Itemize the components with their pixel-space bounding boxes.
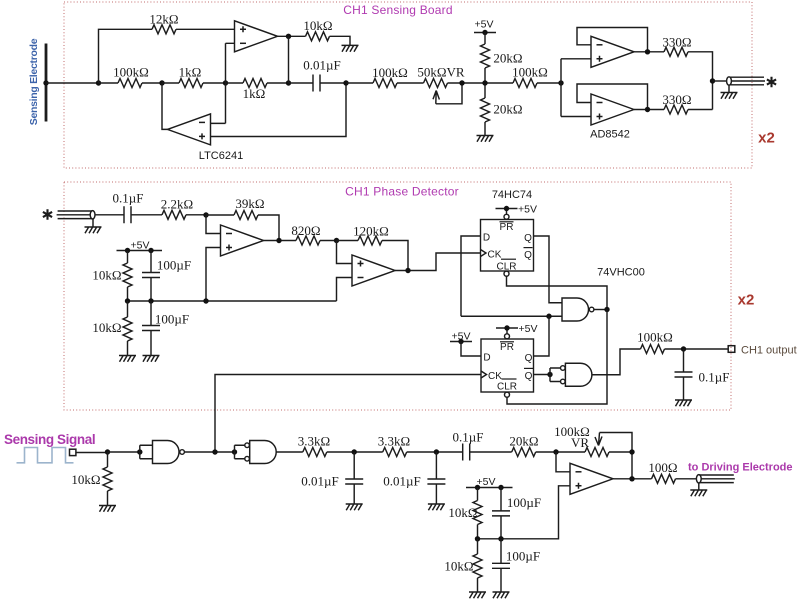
wire U6 D input xyxy=(461,236,481,316)
node Q junction xyxy=(352,449,357,454)
svg-text:to Driving Electrode: to Driving Electrode xyxy=(688,462,793,474)
svg-text:D: D xyxy=(483,233,490,244)
wire cap to 2.2k xyxy=(131,214,162,216)
node F divider junction xyxy=(482,80,487,85)
U8 D +5V xyxy=(450,339,472,344)
node on electrode xyxy=(43,80,48,85)
VR 50k wiper wire xyxy=(436,83,462,104)
wire 100k to terminal xyxy=(665,348,729,350)
svg-text:PR: PR xyxy=(500,342,514,353)
svg-text:2.2kΩ: 2.2kΩ xyxy=(161,197,193,212)
nand U10 xyxy=(250,441,277,464)
VR 100k wiper arrow xyxy=(595,433,602,446)
wire coax shield to ground xyxy=(698,483,700,490)
wire +5V to D xyxy=(461,342,481,357)
svg-text:10kΩ: 10kΩ xyxy=(71,472,100,487)
resistor R 10k to ground xyxy=(306,32,330,41)
wire gate1 input bracket xyxy=(140,445,153,459)
ground at output cap xyxy=(675,400,692,406)
wire U5 output to CK xyxy=(395,253,481,271)
node gate2 bracket xyxy=(232,449,237,454)
capacitor C 100uF bias lower xyxy=(150,301,152,326)
svg-text:CH1 output: CH1 output xyxy=(741,344,797,356)
board outline: CH1 Phase Detector dashed border xyxy=(64,182,731,410)
capacitor C 100uF bias upper xyxy=(150,251,152,273)
svg-text:CK: CK xyxy=(488,371,502,382)
wire 12k to op-amp U1 + input xyxy=(176,28,235,30)
wire node S to op-amp minus xyxy=(556,452,570,472)
node E junction xyxy=(343,80,348,85)
node U7A in2 junction xyxy=(546,314,551,319)
ground at coax xyxy=(721,93,738,99)
overline U8 Qbar xyxy=(524,367,533,369)
op-amp U4 phase first xyxy=(221,225,264,256)
coax connector driving output xyxy=(696,475,734,483)
node K junction xyxy=(276,238,281,243)
potentiometer VR 100k xyxy=(585,448,609,457)
node bias 100uF xyxy=(498,485,503,490)
svg-text:+5V: +5V xyxy=(477,476,496,488)
+5V supply driver bias xyxy=(466,487,513,489)
wire U8 Q bar output xyxy=(534,374,551,376)
wire U6 Q output xyxy=(534,236,563,303)
wire node C vertical to U1 minus and LTC6241 minus xyxy=(211,43,235,123)
ground at input coax xyxy=(85,227,102,233)
svg-text:Q: Q xyxy=(524,233,532,244)
svg-text:12kΩ: 12kΩ xyxy=(149,12,178,27)
wire node G to buffer + inputs xyxy=(561,59,591,117)
node rail 10k xyxy=(125,298,130,303)
wire U3A output xyxy=(634,51,664,53)
svg-text:20kΩ: 20kΩ xyxy=(509,434,538,449)
node rail 10k lower xyxy=(475,536,480,541)
svg-text:Q: Q xyxy=(525,371,533,382)
bias rail wire xyxy=(128,300,337,302)
U8 clock triangle xyxy=(481,371,487,378)
wire 100 to coax xyxy=(676,478,697,480)
nand U10 input bubbles xyxy=(245,443,250,448)
svg-text:74HC74: 74HC74 xyxy=(492,189,532,201)
nand U7A 74VHC00 xyxy=(562,298,589,321)
node H output junction xyxy=(710,78,715,83)
svg-text:0.01µF: 0.01µF xyxy=(383,474,420,489)
U8 CLR bubble xyxy=(505,392,510,397)
capacitor C 100uF driver lower xyxy=(500,539,502,564)
resistor R 1k first xyxy=(162,82,179,84)
wire U7A output xyxy=(594,309,607,311)
wire coax shield to ground xyxy=(92,219,94,227)
potentiometer VR 50k xyxy=(424,79,448,88)
wire VR to node T xyxy=(609,451,632,453)
wire LTC6241 output up to node B xyxy=(162,83,168,129)
resistor R 100k output xyxy=(641,345,665,354)
ground at 0.01uF second xyxy=(428,504,445,510)
svg-text:D: D xyxy=(483,353,490,364)
svg-text:CLR: CLR xyxy=(497,381,517,392)
resistor R 3.3k second xyxy=(383,448,407,457)
svg-text:120kΩ: 120kΩ xyxy=(353,224,389,239)
wire U3B output xyxy=(634,109,664,111)
capacitor C 0.01uF xyxy=(289,82,314,84)
resistor R 39k feedback xyxy=(206,214,234,216)
wire 2.2k to node J xyxy=(186,214,206,216)
resistor R 120k feedback xyxy=(337,240,359,242)
ground at 10k xyxy=(119,356,136,362)
U6 clock triangle xyxy=(481,250,487,257)
resistor R 10k pulldown xyxy=(107,452,109,467)
resistor R 12k xyxy=(152,25,176,34)
wire U3B feedback xyxy=(577,84,648,110)
wire U7A output down to CLR lower xyxy=(507,310,607,405)
wire node H to coax xyxy=(713,80,728,82)
svg-text:AD8542: AD8542 xyxy=(590,128,630,140)
svg-text:VR: VR xyxy=(571,435,589,450)
svg-text:330Ω: 330Ω xyxy=(662,35,691,50)
capacitor C 100uF driver upper xyxy=(500,488,502,511)
op-amp U11 driver xyxy=(570,463,613,494)
wire LTC6241 plus input from node E xyxy=(211,83,347,137)
node G buffer input junction xyxy=(558,80,563,85)
resistor R 100k input xyxy=(99,82,119,84)
wire U8 CK from divider chain xyxy=(215,375,481,453)
resistor R 10k bias upper xyxy=(127,251,129,264)
+5V supply top xyxy=(474,30,496,35)
node P junction xyxy=(105,449,110,454)
svg-text:CH1 Phase Detector: CH1 Phase Detector xyxy=(345,185,459,199)
node rail 100uF xyxy=(148,298,153,303)
node bias left xyxy=(125,248,130,253)
ground at 100uF xyxy=(143,356,160,362)
op-amp U3B AD8542 xyxy=(591,94,634,125)
ground at driver 10k xyxy=(469,592,486,598)
U8 PR bubble xyxy=(505,334,510,339)
node bias 10k xyxy=(475,485,480,490)
svg-text:100µF: 100µF xyxy=(507,495,541,510)
wire U1 output down to node D xyxy=(288,36,290,83)
svg-text:Sensing Electrode: Sensing Electrode xyxy=(28,38,40,125)
node bias right xyxy=(148,248,153,253)
svg-text:3.3kΩ: 3.3kΩ xyxy=(298,434,330,449)
svg-text:100µF: 100µF xyxy=(506,549,540,564)
wire 120k to node M xyxy=(382,241,408,271)
overline U6 Qbar xyxy=(524,247,533,249)
resistor R 2.2k xyxy=(162,210,186,219)
ground at divider xyxy=(477,136,494,142)
node U3A output xyxy=(645,49,650,54)
signal square wave icon xyxy=(17,448,74,463)
svg-text:10kΩ: 10kΩ xyxy=(444,559,473,574)
resistor R 20k upper xyxy=(481,44,490,68)
resistor R 100 output xyxy=(652,474,676,483)
svg-text:CK: CK xyxy=(488,250,502,261)
wire 1k to node D xyxy=(267,82,289,84)
op-amp U1 xyxy=(235,21,278,52)
nand U7B input bubbles xyxy=(561,366,566,371)
svg-text:0.1µF: 0.1µF xyxy=(113,191,144,206)
VR 100k wiper wire xyxy=(600,433,633,479)
capacitor C 0.01uF second xyxy=(435,452,437,479)
nand U7B 74VHC00 xyxy=(565,363,592,386)
svg-text:0.01µF: 0.01µF xyxy=(301,474,338,489)
ground at 10k xyxy=(342,45,359,51)
node rail opamp xyxy=(203,298,208,303)
resistor R 100k third xyxy=(513,79,537,88)
wire U11 output xyxy=(613,478,652,480)
svg-text:x2: x2 xyxy=(738,292,755,309)
svg-text:0.01µF: 0.01µF xyxy=(303,58,340,73)
node * marker top xyxy=(767,77,776,87)
wire node J to op-amp minus xyxy=(206,215,221,234)
op-amp U5 phase second xyxy=(352,255,395,286)
svg-text:50kΩVR: 50kΩVR xyxy=(417,65,465,80)
svg-text:Sensing Signal: Sensing Signal xyxy=(4,432,95,447)
svg-text:10kΩ: 10kΩ xyxy=(92,268,121,283)
wire gate1 output xyxy=(185,451,235,453)
svg-text:10kΩ: 10kΩ xyxy=(92,320,121,335)
overline U6 CLR xyxy=(501,258,516,260)
U6 PR +5V xyxy=(506,209,508,215)
wire node L to op-amp plus xyxy=(337,241,353,264)
svg-text:100kΩ: 100kΩ xyxy=(113,65,149,80)
wire U4 plus to bias rail xyxy=(206,248,221,302)
node T junction xyxy=(629,449,634,454)
U8 PR +5V xyxy=(506,328,508,334)
wire Q bar bracket xyxy=(550,368,560,382)
svg-text:x2: x2 xyxy=(758,130,775,147)
capacitor C 0.1uF output xyxy=(683,349,685,372)
wire U7A input2 xyxy=(461,315,562,317)
+5V supply bias xyxy=(117,250,163,252)
wire node P to gate xyxy=(108,451,140,453)
node wiper junction xyxy=(459,80,464,85)
node L junction xyxy=(334,238,339,243)
resistor R 10k driver upper xyxy=(477,488,479,501)
wire 10k to ground xyxy=(330,36,351,45)
node U11 output junction xyxy=(629,476,634,481)
resistor R 10k driver lower xyxy=(477,539,479,554)
wire 1k to node C xyxy=(203,82,226,84)
wire 330 to output node xyxy=(688,52,713,110)
svg-text:10kΩ: 10kΩ xyxy=(303,18,332,33)
overline U6 PR xyxy=(500,221,514,223)
node * marker phase input xyxy=(43,209,52,219)
wire 20k to node F xyxy=(484,68,486,98)
node S junction xyxy=(553,449,558,454)
capacitor C 0.1uF series xyxy=(463,444,470,461)
resistor R 20k lower xyxy=(481,98,490,122)
svg-text:100kΩ: 100kΩ xyxy=(372,65,408,80)
node U3B output xyxy=(645,107,650,112)
board outline: CH1 Sensing Board dashed border xyxy=(64,2,752,168)
capacitor C 0.1uF input xyxy=(124,206,131,223)
flip-flop U8 74HC74 lower xyxy=(481,339,534,392)
svg-text:1kΩ: 1kΩ xyxy=(243,86,266,101)
terminal CH1 output square xyxy=(728,346,735,353)
wire 20k to node S xyxy=(536,451,585,453)
svg-text:3.3kΩ: 3.3kΩ xyxy=(378,434,410,449)
op-amp U2 LTC6241 (pointing left) xyxy=(168,114,211,145)
node M junction xyxy=(405,268,410,273)
ground at driver 100uF xyxy=(493,592,510,598)
wire 20k to ground xyxy=(484,122,486,135)
svg-text:+5V: +5V xyxy=(518,203,537,215)
VR 50k wiper arrow xyxy=(433,91,439,104)
resistor R 100k second xyxy=(346,82,373,84)
node R junction xyxy=(434,449,439,454)
svg-text:100µF: 100µF xyxy=(155,312,189,327)
resistor R 820 xyxy=(296,236,320,245)
wire to node R xyxy=(407,451,463,453)
resistor R 330 lower xyxy=(664,105,688,114)
wire gate2 input bracket xyxy=(235,445,245,459)
U6 PR bubble xyxy=(504,214,509,219)
svg-text:LTC6241: LTC6241 xyxy=(199,150,243,162)
svg-text:820Ω: 820Ω xyxy=(291,223,320,238)
node J junction xyxy=(203,212,208,217)
node U1 output xyxy=(286,34,291,39)
svg-text:74VHC00: 74VHC00 xyxy=(597,267,645,279)
wire U7B output to 100k xyxy=(592,349,641,375)
overline U8 PR xyxy=(500,341,514,343)
svg-text:20kΩ: 20kΩ xyxy=(493,102,522,117)
wire coax to cap xyxy=(95,214,124,216)
resistor R 3.3k first xyxy=(303,448,327,457)
wire terminal to node P xyxy=(76,452,107,454)
ground at 10k pulldown xyxy=(99,506,116,512)
svg-text:1kΩ: 1kΩ xyxy=(179,65,202,80)
terminal sensing signal input xyxy=(70,449,76,455)
node N output junction xyxy=(681,346,686,351)
svg-text:+5V: +5V xyxy=(519,323,538,335)
wire 39k to output node K xyxy=(258,215,279,241)
resistor R 1k second xyxy=(226,82,244,84)
node CK tap junction xyxy=(212,449,217,454)
wire U6 CLR xyxy=(504,271,509,276)
wire U1 output xyxy=(278,35,306,37)
svg-text:100µF: 100µF xyxy=(157,258,191,273)
node D junction xyxy=(286,80,291,85)
flip-flop U6 74HC74 upper xyxy=(481,220,534,272)
wire node A up to 12k feedback xyxy=(99,29,153,83)
wire to node Q xyxy=(327,451,383,453)
svg-text:+5V: +5V xyxy=(131,240,150,252)
wire 820 to node L xyxy=(320,240,337,242)
nand U9 inverter xyxy=(153,441,180,464)
wire cap to 20k xyxy=(470,451,512,453)
ground at 0.01uF xyxy=(346,504,363,510)
wire 330 lower to output node xyxy=(688,109,713,111)
svg-text:Q: Q xyxy=(525,353,533,364)
svg-text:CLR: CLR xyxy=(496,261,516,272)
node C junction xyxy=(223,80,228,85)
op-amp U3A AD8542 xyxy=(591,36,634,67)
svg-text:+5V: +5V xyxy=(452,331,471,343)
svg-text:100kΩ: 100kΩ xyxy=(512,65,548,80)
wire gate2 output xyxy=(276,451,303,453)
node rail 100uF lower xyxy=(498,536,503,541)
svg-text:10kΩ: 10kΩ xyxy=(448,505,477,520)
overline U8 CLR xyxy=(502,378,517,380)
svg-text:330Ω: 330Ω xyxy=(662,92,691,107)
wire coax shield to ground xyxy=(728,85,730,92)
capacitor C 0.01uF first xyxy=(353,452,355,479)
node gate1 bracket xyxy=(137,449,142,454)
wire U11 plus to bias xyxy=(478,486,571,539)
wire electrode to node A xyxy=(46,82,99,84)
svg-text:CH1 Sensing Board: CH1 Sensing Board xyxy=(343,3,452,17)
wire U5 minus to bias rail xyxy=(337,278,353,302)
svg-text:0.1µF: 0.1µF xyxy=(699,370,730,385)
ground at driving coax xyxy=(690,490,707,496)
coax connector output xyxy=(727,77,765,85)
resistor R 10k bias lower xyxy=(127,301,129,317)
node U7A output junction xyxy=(604,307,609,312)
svg-text:39kΩ: 39kΩ xyxy=(235,196,264,211)
svg-text:100kΩ: 100kΩ xyxy=(637,330,673,345)
node Q bar junction xyxy=(547,372,552,377)
resistor R 20k series xyxy=(512,448,536,457)
wire junction down to Q lower xyxy=(534,316,550,356)
svg-text:20kΩ: 20kΩ xyxy=(493,51,522,66)
wire U3A feedback xyxy=(577,28,648,52)
sensing electrode bar xyxy=(45,44,48,122)
resistor R 330 upper xyxy=(664,47,688,56)
svg-text:100Ω: 100Ω xyxy=(648,460,677,475)
wire U4 output xyxy=(264,240,297,242)
svg-text:Q: Q xyxy=(524,250,532,261)
node B junction xyxy=(159,80,164,85)
svg-text:0.1µF: 0.1µF xyxy=(453,429,484,444)
coax connector input (mirrored) xyxy=(57,211,95,219)
svg-text:PR: PR xyxy=(500,222,514,233)
svg-text:+5V: +5V xyxy=(475,18,494,30)
wire 100k to node B xyxy=(142,82,162,84)
node A junction xyxy=(96,80,101,85)
wire +5V to 20k xyxy=(484,33,486,45)
